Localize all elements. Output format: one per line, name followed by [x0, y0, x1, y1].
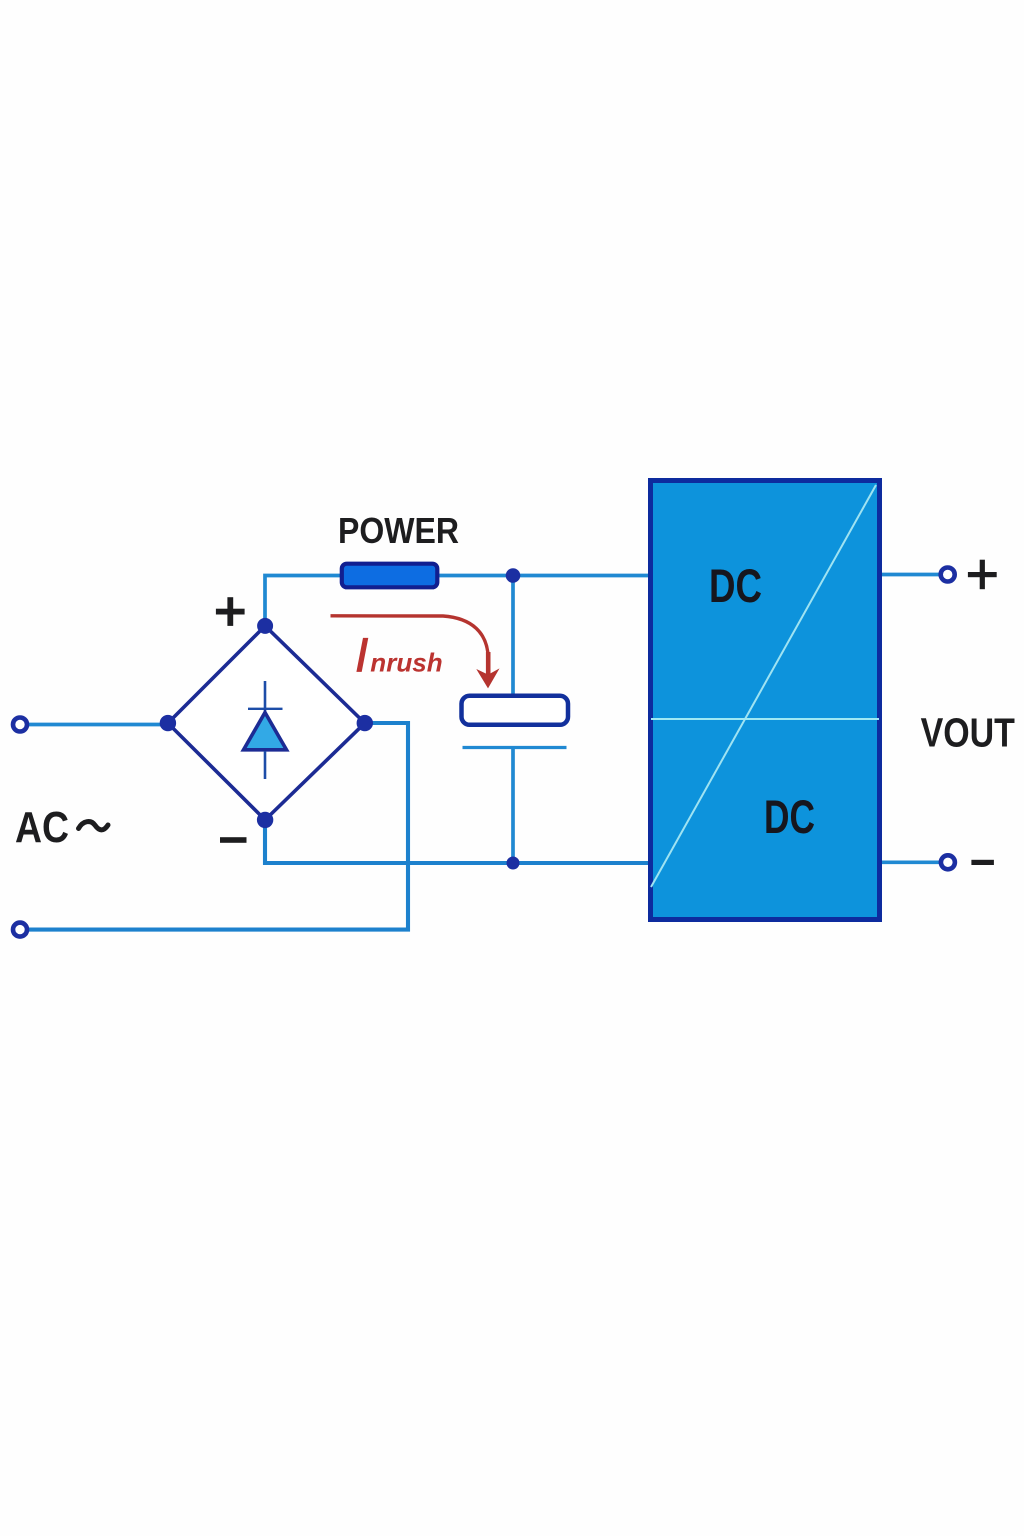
- node: bridge - vertex: [257, 812, 273, 828]
- wire: +VOUT stub: [880, 573, 940, 577]
- label: + (bridge positive): [216, 597, 245, 626]
- terminal: VOUT +: [941, 568, 955, 582]
- wire: capacitor branch bottom: [511, 748, 515, 864]
- diode D1 anode lead: [264, 681, 267, 712]
- svg-text:AC: AC: [15, 803, 69, 852]
- inrush current arrow shaft: [331, 616, 489, 668]
- wire: AC input line 1 (top-left to bridge left node): [28, 723, 170, 727]
- DC/DC converter U1 diagonal divider: [651, 485, 876, 887]
- terminal: AC input 2: [13, 923, 27, 937]
- capacitor C1 bottom plate: [463, 746, 567, 749]
- node: bridge AC right vertex: [357, 715, 373, 731]
- svg-text:POWER: POWER: [338, 510, 459, 551]
- diode D1 cathode lead: [264, 751, 267, 779]
- svg-text:DC: DC: [709, 559, 762, 612]
- wire: positive rail (bridge + node up and right to resistor): [265, 576, 342, 629]
- svg-text:I: I: [355, 630, 368, 683]
- label: - (bridge negative): [220, 837, 247, 843]
- wire: negative rail (bridge - node down and right to DC/DC converter): [265, 818, 650, 863]
- diode D1 triangle: [244, 713, 287, 750]
- label: + (output positive): [968, 560, 997, 590]
- resistor R1 (inrush power resistor): [342, 564, 438, 588]
- inrush current arrow shaft taper: [486, 652, 491, 675]
- label: - (output negative): [971, 860, 994, 865]
- node: junction top rail / capacitor: [506, 568, 521, 583]
- svg-text:DC: DC: [764, 790, 815, 843]
- terminal: VOUT -: [941, 855, 955, 869]
- node: junction bottom rail / capacitor: [507, 857, 520, 870]
- wire: -VOUT stub: [880, 860, 940, 864]
- diode D1 cathode bar: [248, 708, 283, 710]
- svg-text:VOUT: VOUT: [921, 709, 1016, 755]
- wire: capacitor branch top: [511, 576, 515, 697]
- node: bridge AC left vertex: [160, 715, 176, 731]
- wire: positive rail (resistor to DC/DC converter): [437, 574, 650, 578]
- svg-text:nrush: nrush: [370, 648, 442, 678]
- wire: AC input line 2 (bottom-left, up to bridge right node): [28, 723, 408, 930]
- capacitor C1 top plate: [462, 696, 569, 725]
- node: bridge + vertex: [257, 618, 273, 634]
- terminal: AC input 1: [13, 718, 27, 732]
- DC/DC converter U1 horizontal divider: [651, 718, 879, 720]
- DC/DC converter U1 body: [651, 481, 880, 920]
- label: ~ (AC wave): [79, 822, 109, 830]
- inrush current arrow head: [478, 670, 499, 688]
- bridge rectifier BR1 (diamond): [168, 626, 365, 820]
